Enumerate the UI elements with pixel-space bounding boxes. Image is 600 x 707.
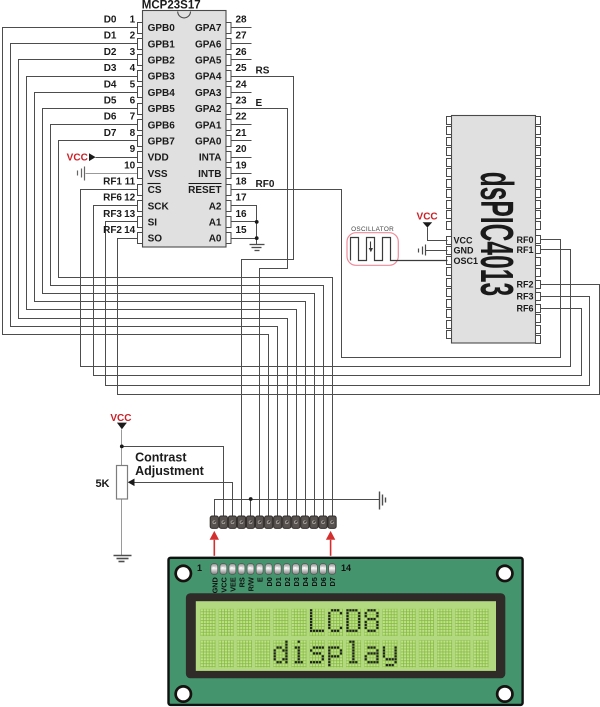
svg-text:RESET: RESET (188, 185, 221, 196)
svg-text:CS: CS (148, 185, 162, 196)
svg-text:GPA7: GPA7 (195, 23, 222, 34)
svg-text:D4: D4 (104, 79, 117, 90)
svg-text:RF0: RF0 (516, 235, 533, 245)
svg-text:VCC: VCC (219, 576, 228, 592)
svg-text:SO: SO (148, 234, 163, 245)
svg-text:RF2: RF2 (103, 225, 122, 236)
svg-text:18: 18 (236, 177, 248, 188)
svg-text:RF2: RF2 (516, 279, 533, 289)
svg-text:VEE: VEE (229, 577, 238, 592)
svg-text:GPB0: GPB0 (148, 23, 176, 34)
svg-text:13: 13 (124, 209, 136, 220)
svg-text:D0: D0 (265, 577, 274, 586)
svg-text:SCK: SCK (148, 201, 170, 212)
svg-text:R/W: R/W (247, 577, 256, 591)
svg-text:GPA0: GPA0 (195, 137, 222, 148)
svg-text:24: 24 (236, 79, 248, 90)
svg-text:RF1: RF1 (516, 245, 533, 255)
svg-text:D2: D2 (283, 577, 292, 586)
svg-text:VCC: VCC (417, 212, 438, 223)
svg-text:INTA: INTA (199, 153, 222, 164)
svg-text:D5: D5 (104, 96, 117, 107)
svg-text:OSCILLATOR: OSCILLATOR (351, 226, 394, 233)
svg-text:D2: D2 (104, 47, 117, 58)
svg-text:1: 1 (130, 15, 136, 26)
svg-text:20: 20 (236, 144, 248, 155)
svg-text:GPA1: GPA1 (195, 120, 222, 131)
svg-text:3: 3 (130, 47, 136, 58)
svg-text:12: 12 (124, 193, 136, 204)
svg-text:RS: RS (238, 577, 247, 587)
svg-text:GPB1: GPB1 (148, 39, 176, 50)
svg-text:19: 19 (236, 160, 248, 171)
svg-text:D7: D7 (104, 128, 117, 139)
svg-text:11: 11 (125, 177, 136, 188)
svg-text:E: E (256, 577, 265, 582)
svg-text:GPB4: GPB4 (148, 88, 176, 99)
svg-text:GPB7: GPB7 (148, 137, 176, 148)
svg-text:14: 14 (124, 225, 136, 236)
svg-text:GPB3: GPB3 (148, 72, 176, 83)
svg-text:27: 27 (236, 31, 248, 42)
svg-text:5: 5 (130, 79, 136, 90)
svg-text:26: 26 (236, 47, 248, 58)
svg-text:D7: D7 (328, 577, 337, 586)
svg-text:VDD: VDD (148, 153, 169, 164)
svg-text:D3: D3 (104, 63, 117, 74)
svg-text:D1: D1 (274, 577, 283, 586)
svg-text:VCC: VCC (110, 413, 131, 424)
svg-text:RF3: RF3 (516, 291, 533, 301)
svg-text:D1: D1 (104, 31, 117, 42)
svg-text:RF1: RF1 (103, 177, 122, 188)
svg-text:7: 7 (130, 112, 136, 123)
svg-text:E: E (256, 98, 263, 109)
svg-text:D3: D3 (292, 577, 301, 586)
svg-text:GPA6: GPA6 (195, 39, 222, 50)
svg-text:D5: D5 (310, 577, 319, 586)
svg-text:6: 6 (130, 96, 136, 107)
svg-text:D4: D4 (301, 576, 310, 586)
svg-text:A2: A2 (209, 201, 222, 212)
svg-text:5K: 5K (95, 478, 109, 490)
svg-text:9: 9 (130, 144, 136, 155)
svg-text:A1: A1 (209, 218, 222, 229)
svg-text:2: 2 (130, 31, 136, 42)
svg-text:23: 23 (236, 96, 248, 107)
svg-text:GND: GND (210, 577, 219, 593)
svg-text:RF6: RF6 (103, 193, 122, 204)
svg-text:VSS: VSS (148, 169, 168, 180)
svg-text:VCC: VCC (67, 153, 88, 164)
svg-text:GPA3: GPA3 (195, 88, 222, 99)
svg-text:VCC: VCC (454, 235, 474, 245)
svg-text:INTB: INTB (198, 169, 221, 180)
svg-text:GPB6: GPB6 (148, 120, 176, 131)
svg-text:D0: D0 (104, 15, 117, 26)
svg-text:22: 22 (236, 112, 248, 123)
svg-text:OSC1: OSC1 (454, 256, 479, 266)
svg-text:Adjustment: Adjustment (135, 464, 205, 478)
svg-text:GPA2: GPA2 (195, 104, 222, 115)
svg-text:25: 25 (236, 63, 248, 74)
svg-text:RF0: RF0 (256, 179, 275, 190)
svg-text:8: 8 (130, 128, 136, 139)
svg-text:RF3: RF3 (103, 209, 122, 220)
svg-text:1: 1 (197, 563, 202, 573)
svg-text:RF6: RF6 (516, 303, 533, 313)
svg-text:15: 15 (236, 225, 248, 236)
svg-text:14: 14 (341, 563, 351, 573)
svg-text:28: 28 (236, 15, 248, 26)
svg-text:4: 4 (130, 63, 136, 74)
svg-text:16: 16 (236, 209, 248, 220)
svg-text:10: 10 (124, 160, 136, 171)
svg-text:GND: GND (454, 246, 475, 256)
svg-text:GPB2: GPB2 (148, 56, 176, 67)
svg-text:GPA4: GPA4 (195, 72, 222, 83)
svg-text:MCP23S17: MCP23S17 (142, 0, 201, 11)
svg-text:RS: RS (256, 66, 270, 77)
svg-text:17: 17 (236, 193, 248, 204)
svg-text:GPA5: GPA5 (195, 56, 222, 67)
svg-text:Contrast: Contrast (135, 451, 187, 465)
svg-text:D6: D6 (104, 112, 117, 123)
svg-text:21: 21 (236, 128, 248, 139)
svg-text:D6: D6 (319, 577, 328, 586)
svg-text:GPB5: GPB5 (148, 104, 176, 115)
svg-text:SI: SI (148, 218, 158, 229)
svg-text:A0: A0 (209, 234, 222, 245)
